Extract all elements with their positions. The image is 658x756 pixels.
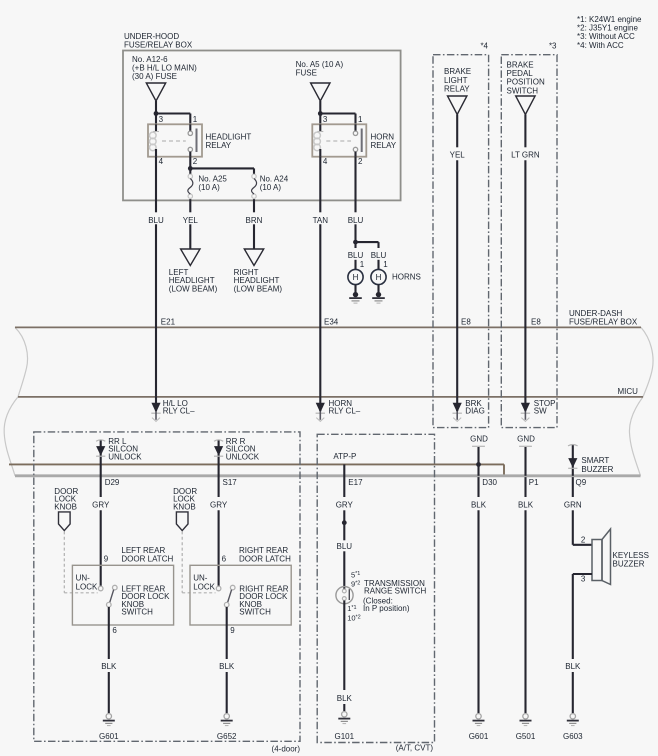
svg-text:YEL: YEL — [183, 216, 199, 225]
svg-text:FUSE/RELAY BOX: FUSE/RELAY BOX — [569, 318, 638, 327]
svg-text:E17: E17 — [348, 478, 363, 487]
svg-text:BLK: BLK — [471, 501, 487, 510]
svg-text:*4: *4 — [480, 42, 488, 51]
svg-text:RELAY: RELAY — [371, 141, 397, 150]
svg-text:UNLOCK: UNLOCK — [108, 452, 142, 461]
svg-text:(A/T, CVT): (A/T, CVT) — [396, 744, 434, 753]
svg-text:RLY CL–: RLY CL– — [163, 406, 195, 415]
svg-text:E21: E21 — [161, 318, 176, 327]
svg-text:ATP-P: ATP-P — [333, 452, 356, 461]
svg-text:GRY: GRY — [92, 501, 110, 510]
svg-text:BLU: BLU — [348, 216, 364, 225]
svg-text:BLK: BLK — [101, 662, 117, 671]
svg-text:(LOW BEAM): (LOW BEAM) — [234, 285, 283, 294]
svg-text:BRAKE: BRAKE — [507, 60, 534, 69]
svg-text:2: 2 — [193, 157, 198, 166]
svg-text:BLU: BLU — [337, 542, 353, 551]
svg-text:(4-door): (4-door) — [272, 744, 301, 753]
svg-text:G652: G652 — [217, 732, 237, 741]
svg-text:GRN: GRN — [564, 501, 582, 510]
svg-text:SWITCH: SWITCH — [507, 86, 539, 95]
svg-text:Q9: Q9 — [576, 478, 587, 487]
svg-text:4: 4 — [159, 157, 164, 166]
svg-text:(10 A): (10 A) — [198, 183, 220, 192]
svg-text:GND: GND — [517, 434, 535, 443]
svg-text:SWITCH: SWITCH — [121, 608, 153, 617]
svg-text:SW: SW — [534, 406, 547, 415]
svg-text:DOOR LATCH: DOOR LATCH — [239, 555, 291, 564]
svg-text:BRN: BRN — [246, 216, 263, 225]
svg-text:E34: E34 — [324, 318, 339, 327]
svg-text:DIAG: DIAG — [465, 406, 485, 415]
svg-text:S17: S17 — [223, 478, 238, 487]
svg-text:RLY CL–: RLY CL– — [329, 406, 361, 415]
svg-text:1: 1 — [358, 115, 363, 124]
svg-text:UNLOCK: UNLOCK — [226, 452, 260, 461]
svg-text:E8: E8 — [461, 318, 471, 327]
svg-text:SMART: SMART — [581, 456, 609, 465]
svg-text:BLU: BLU — [371, 251, 387, 260]
svg-text:KNOB: KNOB — [173, 502, 196, 511]
svg-text:BLK: BLK — [337, 694, 353, 703]
svg-text:(10 A): (10 A) — [260, 183, 282, 192]
svg-text:1: 1 — [383, 260, 388, 269]
svg-text:UNDER-DASH: UNDER-DASH — [569, 309, 623, 318]
svg-text:1: 1 — [360, 260, 365, 269]
svg-text:*3: Without ACC: *3: Without ACC — [577, 32, 635, 41]
svg-text:PEDAL: PEDAL — [507, 69, 534, 78]
svg-text:YEL: YEL — [450, 150, 466, 159]
svg-text:H: H — [353, 273, 359, 282]
svg-text:G601: G601 — [469, 732, 489, 741]
svg-text:P1: P1 — [529, 478, 539, 487]
svg-text:LOCK: LOCK — [76, 582, 98, 591]
svg-text:2: 2 — [581, 536, 586, 545]
svg-text:RANGE SWITCH: RANGE SWITCH — [364, 587, 426, 596]
svg-text:LOCK: LOCK — [193, 582, 215, 591]
svg-text:LT GRN: LT GRN — [511, 150, 540, 159]
svg-text:FUSE: FUSE — [296, 68, 317, 77]
svg-text:*2: J35Y1 engine: *2: J35Y1 engine — [577, 24, 638, 33]
svg-text:HORNS: HORNS — [392, 272, 421, 281]
svg-text:BUZZER: BUZZER — [613, 559, 645, 568]
svg-text:BLU: BLU — [348, 251, 364, 260]
svg-text:BUZZER: BUZZER — [581, 465, 613, 474]
svg-text:GRY: GRY — [210, 501, 228, 510]
svg-text:POSITION: POSITION — [507, 78, 545, 87]
svg-text:6: 6 — [222, 555, 227, 564]
svg-text:BLU: BLU — [148, 216, 164, 225]
svg-text:3: 3 — [159, 115, 164, 124]
svg-text:GND: GND — [470, 434, 488, 443]
svg-text:E8: E8 — [531, 318, 541, 327]
svg-text:6: 6 — [112, 626, 117, 635]
svg-text:4: 4 — [323, 157, 328, 166]
svg-text:RELAY: RELAY — [206, 141, 232, 150]
svg-text:FUSE/RELAY BOX: FUSE/RELAY BOX — [124, 40, 193, 49]
svg-text:(30 A) FUSE: (30 A) FUSE — [132, 72, 177, 81]
svg-text:3: 3 — [323, 115, 328, 124]
svg-text:DOOR LATCH: DOOR LATCH — [121, 555, 173, 564]
svg-text:UN-: UN- — [76, 574, 91, 583]
svg-text:UN-: UN- — [193, 574, 208, 583]
svg-text:GRY: GRY — [336, 501, 354, 510]
svg-text:H: H — [376, 273, 382, 282]
svg-text:In P position): In P position) — [363, 604, 410, 613]
svg-text:TAN: TAN — [313, 216, 329, 225]
svg-text:LIGHT: LIGHT — [444, 76, 468, 85]
svg-text:BLK: BLK — [518, 501, 534, 510]
svg-text:MICU: MICU — [618, 387, 639, 396]
svg-text:SWITCH: SWITCH — [239, 608, 271, 617]
svg-text:9: 9 — [230, 626, 235, 635]
svg-text:D30: D30 — [482, 478, 497, 487]
svg-text:RELAY: RELAY — [444, 85, 470, 94]
svg-text:G101: G101 — [335, 732, 355, 741]
svg-text:1: 1 — [193, 115, 198, 124]
svg-text:BRAKE: BRAKE — [444, 67, 471, 76]
svg-text:KNOB: KNOB — [54, 502, 77, 511]
svg-text:*1: K24W1 engine: *1: K24W1 engine — [577, 15, 642, 24]
svg-text:2: 2 — [358, 157, 363, 166]
svg-text:G603: G603 — [563, 732, 583, 741]
svg-text:G601: G601 — [99, 732, 119, 741]
svg-text:*4: With ACC: *4: With ACC — [577, 41, 624, 50]
svg-text:BLK: BLK — [565, 662, 581, 671]
svg-text:3: 3 — [581, 575, 586, 584]
svg-text:9: 9 — [104, 555, 109, 564]
svg-text:(LOW BEAM): (LOW BEAM) — [169, 285, 218, 294]
svg-text:BLK: BLK — [219, 662, 235, 671]
svg-text:*3: *3 — [549, 42, 557, 51]
svg-text:D29: D29 — [105, 478, 120, 487]
svg-text:G501: G501 — [516, 732, 536, 741]
